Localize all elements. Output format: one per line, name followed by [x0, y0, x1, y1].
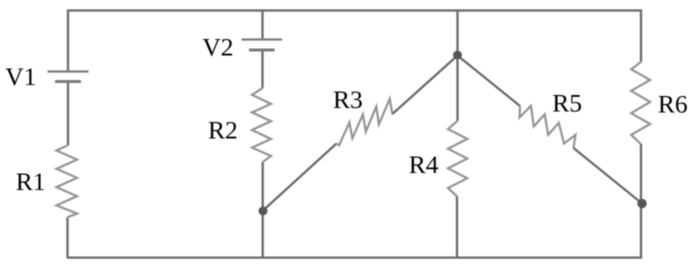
battery V2 short plate — [249, 49, 275, 52]
svg-text:R6: R6 — [658, 90, 688, 119]
svg-text:R5: R5 — [552, 88, 582, 117]
wire right rail lower (R6 through node C to bottom rail) — [640, 144, 642, 258]
node A junction dot — [259, 207, 268, 216]
wire center branch (node B to R4) — [456, 55, 458, 121]
wire top rail — [67, 9, 642, 11]
resistor R2 body — [252, 88, 271, 162]
svg-text:V2: V2 — [202, 33, 233, 62]
svg-text:R4: R4 — [409, 150, 439, 179]
wire bottom rail — [67, 256, 642, 258]
svg-text:R1: R1 — [16, 167, 46, 196]
svg-text:V1: V1 — [5, 62, 36, 91]
wire center branch lower (R4 to bottom rail) — [456, 197, 458, 258]
wire R3 lower segment (node A to R3) — [263, 144, 337, 211]
svg-text:R3: R3 — [333, 85, 363, 114]
wire left rail middle (V1 to R1) — [67, 83, 69, 146]
resistor R3 body — [337, 99, 393, 146]
wire branch2 middle (V2 to R2) — [261, 51, 263, 88]
battery V1 short plate — [55, 80, 81, 83]
wire right rail upper (top rail to R6) — [640, 11, 642, 63]
wire branch2 upper (top rail to V2) — [261, 11, 263, 39]
node B junction dot — [453, 51, 462, 60]
resistor R5 body — [520, 106, 576, 148]
wire R5 lower segment (R5 to node C) — [574, 148, 643, 204]
resistor R6 body — [631, 62, 650, 144]
wire R3 upper segment (R3 to node B) — [392, 56, 457, 115]
wire R5 upper segment (node B to R5) — [458, 56, 521, 107]
wire branch2 lower (R2 through node to bottom rail) — [262, 162, 264, 258]
wire left rail lower (R1 to bottom rail) — [66, 217, 68, 257]
wire center branch upper (top rail to node B) — [456, 11, 458, 56]
resistor R4 body — [448, 121, 467, 197]
svg-text:R2: R2 — [208, 115, 238, 144]
node C junction dot — [637, 199, 646, 208]
battery V2 long plate — [242, 38, 283, 40]
battery V1 long plate — [48, 70, 89, 72]
resistor R1 body — [57, 146, 78, 218]
wire left rail upper (top rail to V1) — [67, 11, 69, 71]
